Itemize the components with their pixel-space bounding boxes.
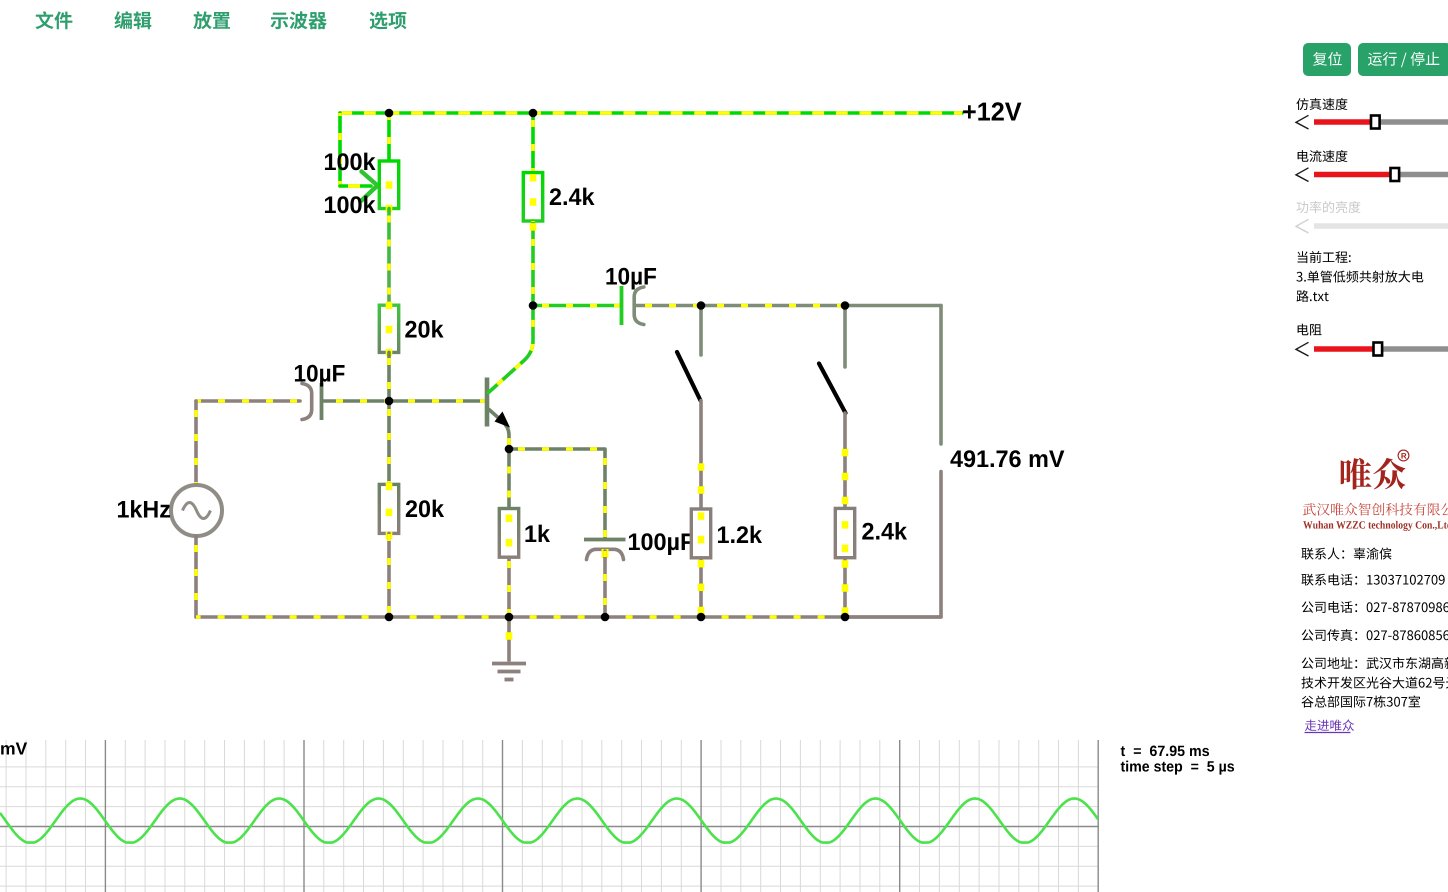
resistor lower 20k <box>379 483 398 540</box>
oscilloscope trace <box>0 799 1098 843</box>
transistor Q1 base bar <box>485 378 490 427</box>
wire S1 to 1.2k <box>699 401 703 510</box>
wire pot to 20k upper <box>387 209 391 306</box>
label 10uF input <box>295 365 345 387</box>
resistor potentiometer 100k <box>379 161 398 212</box>
wire pot top terminal <box>387 113 391 161</box>
label 10uF output <box>606 268 656 290</box>
label scope timestep <box>1121 761 1234 775</box>
contact info <box>1302 548 1392 560</box>
label 20k upper <box>405 320 443 338</box>
wire pot wiper horizontal <box>340 184 371 188</box>
ground symbol <box>492 617 526 680</box>
capacitor 10uF output curved plate <box>634 287 644 325</box>
S1 branch current dashes <box>698 463 705 494</box>
resistor 1.2k <box>691 509 710 558</box>
wiper current dash <box>348 184 360 188</box>
capacitor 10uF input curved plate <box>302 384 312 420</box>
wire 1k to rail <box>507 557 511 617</box>
node rail/2.4k <box>841 613 850 622</box>
node rail/divider <box>385 613 394 622</box>
node output/1.2k branch <box>697 301 706 310</box>
wire pot left branch down <box>338 113 342 186</box>
wire 1.2k to rail <box>699 558 703 617</box>
slider current speed <box>1296 168 1448 182</box>
node output/2.4k branch <box>841 301 850 310</box>
wire lower 20k to ground rail <box>387 533 391 617</box>
node rail/100uF <box>601 613 610 622</box>
transistor emitter arrow <box>495 412 511 428</box>
label 1kHz <box>118 500 170 517</box>
resistor 2.4k collector <box>523 173 542 221</box>
wire ground rail <box>196 615 845 619</box>
2.4k load lower dashes <box>842 560 849 615</box>
node emitter node <box>505 445 514 454</box>
wire base wire <box>322 399 485 403</box>
slider sim speed label <box>1296 98 1347 110</box>
label 100k upper <box>325 153 376 171</box>
logo weizhong calligraphy <box>1341 458 1372 490</box>
label +12V <box>963 102 1021 120</box>
wire 100uF to rail <box>603 551 607 617</box>
S2 branch current dashes <box>842 449 849 504</box>
1.2k lower dashes <box>698 560 705 614</box>
label 2.4k load <box>862 522 907 539</box>
slider current speed label <box>1298 150 1348 162</box>
oscilloscope grid minor <box>0 740 1099 892</box>
button run/stop <box>1358 43 1448 76</box>
label 100uF <box>629 533 694 555</box>
wire emitter to 100uF branch <box>509 449 605 538</box>
switch S1 post <box>699 306 703 356</box>
slider resistance label <box>1298 324 1322 336</box>
wire emitter lead <box>489 410 509 450</box>
voltage source 1kHz <box>171 485 222 536</box>
wire +12V top rail <box>340 111 962 115</box>
wire 2.4k load to rail <box>843 558 847 617</box>
wire 20k upper to base node <box>387 352 391 401</box>
wire output rail to voltmeter <box>845 304 941 308</box>
label 491.76 mV <box>950 450 1064 467</box>
slider power brightness <box>1296 219 1448 233</box>
wire output rail <box>636 304 845 308</box>
switch S2 blade <box>819 364 846 414</box>
voltmeter bottom lead <box>845 472 941 618</box>
capacitor 100uF straight plate <box>584 538 626 542</box>
wire 2.4k to collector node <box>531 221 535 306</box>
capacitor 100uF curved plate <box>587 549 624 559</box>
label 1k <box>525 525 550 542</box>
switch S1 blade <box>677 352 701 401</box>
node top rail / 2.4k feed <box>529 109 538 118</box>
wire input left upper <box>194 401 198 485</box>
slider sim speed <box>1296 115 1448 129</box>
button reset <box>1303 43 1351 76</box>
potentiometer wiper arrow <box>362 172 378 201</box>
100uF current dash <box>602 549 609 558</box>
wire S2 to 2.4k <box>843 413 847 508</box>
slider resistance <box>1296 342 1448 356</box>
wire ground rail right (no current) <box>845 615 941 619</box>
oscilloscope grid major <box>0 740 1099 892</box>
label 1.2k <box>718 526 762 543</box>
node collector node <box>529 301 538 310</box>
label 100k lower <box>325 196 376 214</box>
wire base node down to lower 20k <box>387 401 391 484</box>
switch S2 post <box>843 306 847 368</box>
resistor 2.4k load <box>835 508 854 557</box>
node rail/1.2k <box>697 613 706 622</box>
label 20k lower <box>406 500 444 518</box>
node rail/1k <box>505 613 514 622</box>
capacitor 10uF input straight plate <box>320 383 324 420</box>
resistor upper 20k <box>379 302 398 357</box>
label 2.4k collector <box>550 188 595 205</box>
dash below 2.4k <box>530 223 537 231</box>
wire emitter to 1k <box>507 449 511 509</box>
wire input left lower <box>194 536 198 617</box>
node base node <box>385 397 394 406</box>
slider power brightness label <box>1297 201 1361 213</box>
current project text <box>1298 251 1351 263</box>
logo (R) <box>1398 450 1409 461</box>
capacitor 10uF output straight plate <box>620 286 624 325</box>
company name cn <box>1303 503 1448 516</box>
menu bar <box>36 11 73 29</box>
wire 12V to 2.4k <box>531 113 535 173</box>
company name en <box>1303 521 1448 531</box>
wire collector node to out cap <box>533 304 620 308</box>
resistor 1k emitter <box>499 509 518 558</box>
label scope mV <box>1 743 27 755</box>
label scope t <box>1121 746 1209 757</box>
wire collector lead <box>489 306 534 393</box>
wire input top <box>196 399 300 403</box>
voltmeter top lead <box>939 306 943 445</box>
node top rail / pot feed <box>385 109 394 118</box>
link zoujin weizhong <box>1305 719 1355 732</box>
